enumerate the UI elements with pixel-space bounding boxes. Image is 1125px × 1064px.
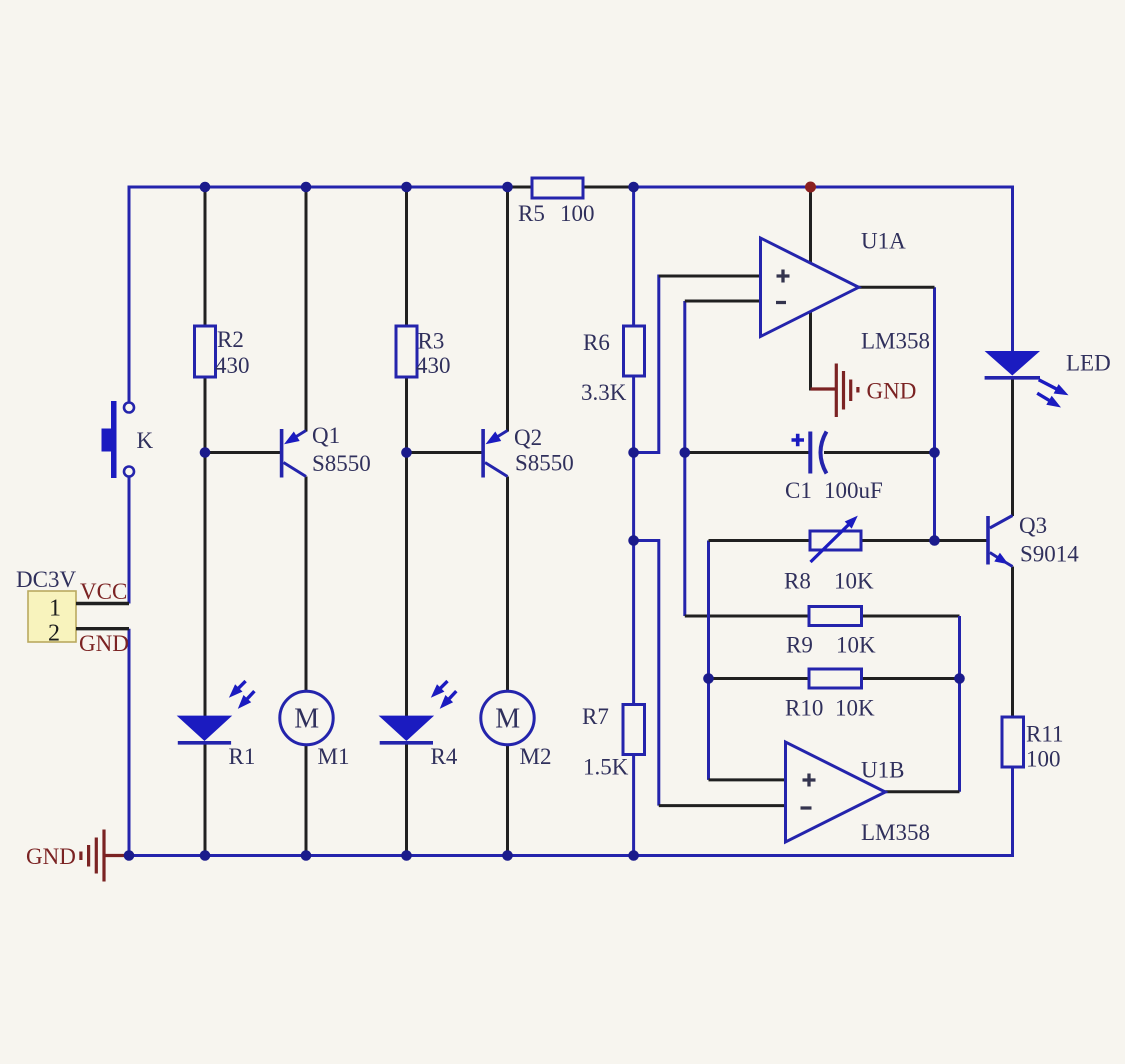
- op-amp U1B LM358: [786, 742, 931, 845]
- motor M2: [481, 691, 552, 769]
- wire Q1 collector to motor M1: [305, 477, 308, 692]
- resistor R10 10K: [785, 669, 875, 721]
- svg-text:10K: 10K: [836, 633, 876, 658]
- junction node R10 left: [703, 673, 714, 684]
- wire R11 bottom to ground rail corner: [1011, 767, 1014, 857]
- svg-text:R4: R4: [431, 744, 458, 769]
- wire node B down to R4 anode: [405, 453, 408, 717]
- svg-text:M: M: [294, 704, 319, 735]
- svg-text:R7: R7: [582, 704, 609, 729]
- svg-text:M2: M2: [520, 744, 552, 769]
- capacitor C1 100uF: [785, 432, 883, 504]
- wire node N1 to U1A plus input: [634, 276, 762, 453]
- svg-text:S8550: S8550: [312, 451, 371, 476]
- transistor Q1 S8550: [280, 423, 371, 478]
- svg-text:LM358: LM358: [861, 329, 930, 354]
- motor M1: [280, 691, 350, 769]
- resistor R3 430: [396, 326, 451, 378]
- wire R10 left lead: [709, 677, 810, 680]
- wire connector pin 2 to ground rail: [128, 629, 131, 856]
- wire node B to Q2 base: [407, 451, 484, 454]
- svg-text:M1: M1: [318, 744, 350, 769]
- junction node C1 left at U1A minus column: [680, 447, 691, 458]
- svg-text:LED: LED: [1066, 351, 1111, 376]
- wire R9 right lead: [862, 615, 960, 618]
- wire node A down to R1 anode: [204, 453, 207, 717]
- svg-text:LM358: LM358: [861, 820, 930, 845]
- wire U1A plus input horizontal: [659, 275, 762, 278]
- svg-text:2: 2: [48, 621, 60, 647]
- wire LED cathode to Q3 collector: [1011, 379, 1014, 516]
- ground symbol U1A: [811, 364, 858, 418]
- wire R5 left lead: [508, 186, 534, 189]
- wire R4 cathode to ground rail: [405, 742, 408, 856]
- svg-text:100: 100: [560, 201, 595, 226]
- wire Q3 emitter to R11 top: [1011, 567, 1014, 718]
- wire R6 bottom through node N1 to node N2: [632, 376, 635, 705]
- svg-text:R11: R11: [1026, 722, 1064, 747]
- junction node C1 right at U1A output column: [929, 447, 940, 458]
- junction node A (R2 bottom Q1 base): [200, 447, 211, 458]
- resistor R6 3.3K: [581, 326, 645, 405]
- resistor R2 430: [195, 326, 250, 378]
- junction node on bus at Q2 column: [502, 182, 513, 193]
- wire R7 bottom to ground rail: [632, 754, 635, 856]
- junction node red on bus at U1A V+: [805, 182, 816, 193]
- svg-text:430: 430: [416, 353, 451, 378]
- wire R1 cathode to ground rail: [204, 742, 207, 856]
- svg-text:430: 430: [215, 353, 250, 378]
- svg-text:Q2: Q2: [514, 425, 542, 450]
- resistor R11 100: [1002, 717, 1064, 772]
- svg-text:R3: R3: [418, 329, 445, 354]
- wire R9 left lead: [685, 615, 809, 618]
- junction node R8 right Q3 base: [929, 535, 940, 546]
- svg-text:R8: R8: [784, 569, 811, 594]
- svg-text:C1: C1: [785, 478, 812, 503]
- wire node R8right to Q3 base: [935, 539, 989, 542]
- svg-text:1: 1: [49, 596, 61, 622]
- wire bus red node to U1A V+ pin: [809, 187, 812, 264]
- wire VCC top bus right part: [634, 187, 1013, 352]
- wire R3 bottom to node B: [405, 376, 408, 453]
- wire bus to R2 top: [204, 187, 207, 326]
- wire C1 right lead: [824, 451, 935, 454]
- ground symbol bottom left: [81, 830, 127, 882]
- junction node ground rail at M1 column: [301, 850, 312, 861]
- wire U1A output horizontal: [858, 286, 935, 289]
- junction node N1 (R6 bottom): [628, 447, 639, 458]
- wire Q2 collector to motor M2: [506, 477, 509, 692]
- junction node ground rail at R7 column: [628, 850, 639, 861]
- svg-text:R1: R1: [229, 744, 256, 769]
- wire motor M2 to ground rail: [506, 745, 509, 856]
- svg-text:R10: R10: [785, 696, 823, 721]
- wire R8 right lead: [861, 539, 935, 542]
- svg-text:S9014: S9014: [1020, 542, 1079, 567]
- svg-text:GND: GND: [867, 379, 917, 404]
- wire R2 bottom to node A: [204, 377, 207, 453]
- resistor R9 10K: [786, 607, 876, 658]
- wire node N2 to U1B minus input: [634, 541, 659, 806]
- transistor Q2 S8550: [481, 425, 573, 478]
- junction node ground rail at R4 column: [401, 850, 412, 861]
- wire R10 right lead: [862, 677, 960, 680]
- wire C1 left lead: [685, 451, 810, 454]
- photodiode R1: [177, 681, 256, 769]
- wire R8 left lead: [709, 539, 811, 542]
- wire bus to R6 top: [632, 187, 635, 326]
- svg-text:3.3K: 3.3K: [581, 380, 627, 405]
- svg-text:R6: R6: [583, 330, 610, 355]
- wire U1A minus input vertical (to C1 and R9): [683, 301, 686, 616]
- junction node R10 right: [954, 673, 965, 684]
- junction node on bus at Q1 column: [301, 182, 312, 193]
- resistor R5 100: [518, 178, 595, 226]
- svg-text:VCC: VCC: [80, 579, 127, 604]
- junction node B (R3 bottom Q2 base): [401, 447, 412, 458]
- svg-text:100uF: 100uF: [824, 478, 883, 503]
- junction node N2 (R7 top): [628, 535, 639, 546]
- switch K: [102, 401, 154, 478]
- wire bus to Q2 emitter: [506, 187, 509, 432]
- svg-text:GND: GND: [79, 631, 129, 656]
- pin 1: [76, 602, 129, 605]
- svg-text:U1A: U1A: [861, 229, 906, 254]
- svg-text:10K: 10K: [835, 696, 875, 721]
- wire bus to R3 top: [405, 187, 408, 327]
- svg-text:S8550: S8550: [515, 451, 574, 476]
- junction node on bus at R3 column: [401, 182, 412, 193]
- svg-text:100: 100: [1026, 747, 1061, 772]
- wire R5 right lead: [583, 186, 634, 189]
- junction node on bus at R6 column: [628, 182, 639, 193]
- pin 2: [76, 627, 129, 630]
- svg-text:10K: 10K: [834, 569, 874, 594]
- svg-text:M: M: [495, 704, 520, 735]
- junction node on bus at R2 column: [200, 182, 211, 193]
- variable resistor R8 10K: [784, 516, 874, 594]
- svg-text:1.5K: 1.5K: [583, 755, 629, 780]
- wire bus to Q1 emitter: [305, 187, 308, 432]
- svg-text:R2: R2: [217, 327, 244, 352]
- svg-text:U1B: U1B: [861, 758, 904, 783]
- svg-text:R5: R5: [518, 201, 545, 226]
- photodiode R4: [379, 681, 458, 769]
- op-amp U1A LM358: [761, 229, 931, 354]
- resistor R7 1.5K: [582, 704, 645, 780]
- junction node ground rail at left vertical: [124, 850, 135, 861]
- svg-text:K: K: [137, 428, 154, 453]
- wire node A to Q1 base: [205, 451, 282, 454]
- wire VCC top bus left part: [129, 186, 508, 189]
- junction node ground rail at M2 column: [502, 850, 513, 861]
- junction node ground rail at R1 column: [200, 850, 211, 861]
- wire U1B minus input horizontal: [659, 804, 787, 807]
- wire R9 R10 right to U1B output vertical: [958, 616, 961, 792]
- wire left rail upper (bus to switch K): [128, 186, 131, 404]
- svg-text:GND: GND: [26, 844, 76, 869]
- wire bottom ground rail: [129, 854, 1013, 857]
- connector DC3V: [16, 567, 129, 656]
- svg-text:Q3: Q3: [1019, 513, 1047, 538]
- wire switch K to connector pin 1: [128, 477, 131, 604]
- wire U1A minus input horizontal: [685, 300, 762, 303]
- svg-text:DC3V: DC3V: [16, 567, 76, 592]
- svg-text:R9: R9: [786, 633, 813, 658]
- wire U1A V- pin down to GND elbow: [809, 311, 812, 391]
- svg-text:Q1: Q1: [312, 423, 340, 448]
- wire U1B output horizontal: [884, 790, 960, 793]
- LED: [985, 351, 1111, 408]
- wire U1B plus input horizontal: [709, 778, 788, 781]
- wire motor M1 to ground rail: [305, 745, 308, 856]
- wire U1A output to C1 right and R8 right vertical: [933, 287, 936, 540]
- wire R8 left to R10 left to U1B plus input vertical: [707, 541, 710, 780]
- transistor Q3 S9014: [986, 513, 1079, 567]
